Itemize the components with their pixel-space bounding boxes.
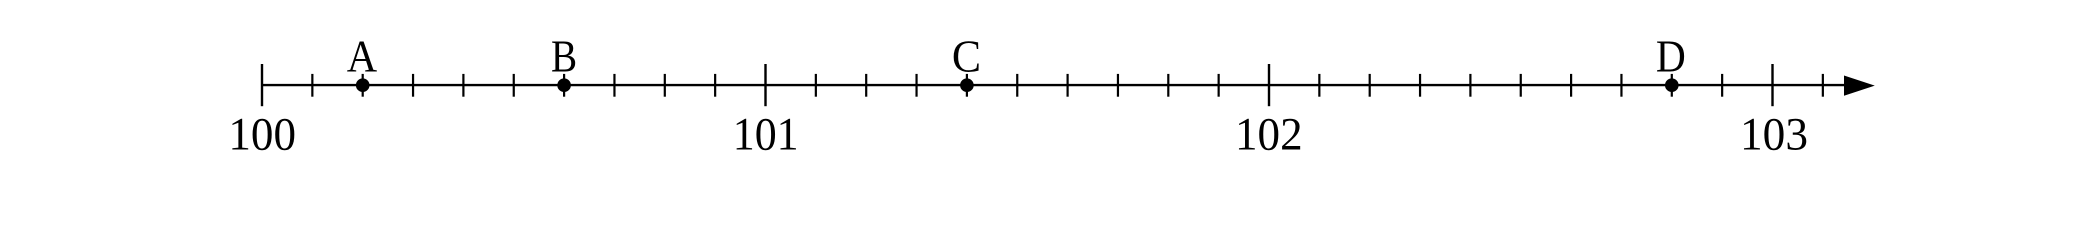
minor tick 100.7 <box>613 74 615 97</box>
major tick 102 <box>1268 64 1270 106</box>
minor tick 102.3 <box>1419 74 1421 97</box>
minor tick 100.4 <box>462 74 464 97</box>
svg-text:103: 103 <box>1740 109 1808 161</box>
minor tick 102.5 <box>1520 74 1522 97</box>
minor tick 100.3 <box>412 74 414 97</box>
minor tick 101.6 <box>1066 74 1068 97</box>
svg-text:100: 100 <box>228 109 296 161</box>
minor tick 103.1 <box>1822 74 1824 97</box>
svg-text:C: C <box>952 31 981 82</box>
minor tick 100.1 <box>311 74 313 97</box>
minor tick 100.2 <box>362 74 364 97</box>
number line axis <box>262 84 1848 86</box>
major tick 101 <box>764 64 766 106</box>
minor tick 100.8 <box>664 74 666 97</box>
minor tick 101.1 <box>815 74 817 97</box>
minor tick 102.6 <box>1570 74 1572 97</box>
svg-text:B: B <box>551 31 577 82</box>
svg-text:A: A <box>347 31 377 82</box>
minor tick 102.9 <box>1721 74 1723 97</box>
minor tick 100.9 <box>714 74 716 97</box>
minor tick 102.4 <box>1469 74 1471 97</box>
minor tick 101.2 <box>865 74 867 97</box>
svg-text:102: 102 <box>1235 109 1303 161</box>
minor tick 101.4 <box>966 74 968 97</box>
point C dot <box>960 78 974 92</box>
minor tick 102.8 <box>1671 74 1673 97</box>
point D dot <box>1665 78 1679 92</box>
major tick 100 <box>261 64 263 106</box>
svg-text:101: 101 <box>733 109 799 161</box>
minor tick 102.7 <box>1620 74 1622 97</box>
minor tick 100.5 <box>513 74 515 97</box>
point A dot <box>356 78 370 92</box>
minor tick 101.8 <box>1167 74 1169 97</box>
minor tick 101.7 <box>1117 74 1119 97</box>
point B dot <box>557 78 571 92</box>
minor tick 101.9 <box>1218 74 1220 97</box>
minor tick 100.6 <box>563 74 565 97</box>
minor tick 101.3 <box>915 74 917 97</box>
minor tick 102.1 <box>1318 74 1320 97</box>
minor tick 101.5 <box>1016 74 1018 97</box>
major tick 103 <box>1771 64 1773 106</box>
arrowhead <box>1844 76 1875 96</box>
svg-text:D: D <box>1656 31 1686 82</box>
minor tick 102.2 <box>1369 74 1371 97</box>
